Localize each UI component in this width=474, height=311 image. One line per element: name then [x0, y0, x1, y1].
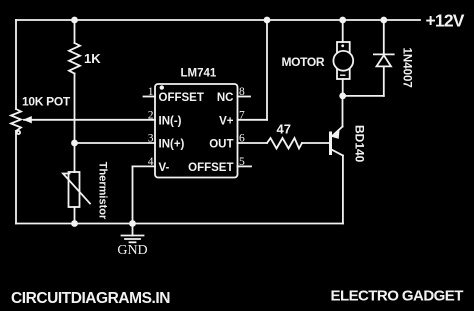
pin number 1: [148, 86, 154, 98]
svg-text:1: 1: [148, 86, 154, 98]
wire top +12V rail: [16, 19, 420, 21]
wire pin3 to IC: [75, 142, 156, 144]
svg-text:GND: GND: [117, 243, 147, 258]
watermark CIRCUITDIAGRAMS.IN: [11, 290, 170, 307]
svg-text:MOTOR: MOTOR: [282, 55, 325, 69]
resistor R1 1K: [69, 43, 80, 74]
svg-text:+12V: +12V: [426, 11, 465, 31]
pin 8 stub: [238, 96, 251, 98]
diode D1 1N4007: [343, 20, 394, 96]
label MOTOR: [282, 55, 325, 69]
label 1K: [84, 51, 101, 66]
watermark ELECTRO GADGET: [331, 288, 464, 305]
svg-text:1K: 1K: [84, 51, 101, 66]
svg-text:Thermistor: Thermistor: [97, 162, 109, 220]
wire thermistor bottom lead: [74, 207, 76, 224]
svg-text:OFFSET: OFFSET: [188, 162, 233, 174]
label Thermistor: [97, 162, 109, 220]
pin label IN(+) (pin3): [159, 139, 185, 151]
pin label OUT (pin6): [209, 139, 233, 151]
pin number 8: [239, 86, 245, 98]
pin label NC (pin8): [217, 92, 234, 104]
svg-text:IN(+): IN(+): [159, 139, 185, 151]
svg-text:6: 6: [239, 133, 245, 145]
pin number 3: [148, 133, 154, 145]
wire motor top lead: [342, 20, 344, 42]
svg-text:8: 8: [239, 86, 245, 98]
label +12V: [426, 11, 465, 31]
svg-text:V-: V-: [159, 162, 170, 174]
svg-text:NC: NC: [217, 92, 234, 104]
resistor R2 47: [267, 138, 302, 149]
wire left vertical (rail to pot top): [15, 20, 17, 109]
svg-text:1N4007: 1N4007: [400, 48, 412, 88]
label LM741: [181, 68, 217, 80]
wire collector down to bottom rail: [342, 156, 344, 224]
op-amp pin1 indicator dot: [160, 85, 164, 89]
junction dot V- on bottom rail: [129, 220, 136, 227]
junction dot top rail / 1K: [71, 17, 78, 24]
svg-text:10K POT: 10K POT: [22, 95, 71, 109]
wire V+ pin7 up to rail: [266, 20, 268, 120]
pin label IN(-) (pin2): [159, 115, 182, 127]
wire 1K bottom lead to pin3 node: [74, 74, 76, 144]
pin 5 stub: [238, 165, 252, 167]
potentiometer 10K POT: [11, 109, 21, 134]
svg-text:7: 7: [239, 109, 245, 121]
pin 1 stub: [144, 96, 156, 98]
pin 6 stub: [238, 142, 268, 144]
label 10K POT: [22, 95, 71, 109]
pin label OFFSET (pin1): [159, 92, 204, 104]
pin number 6: [239, 133, 245, 145]
node motor/diode/emitter junction: [339, 93, 346, 100]
svg-text:3: 3: [148, 133, 154, 145]
pin number 4: [148, 156, 154, 168]
svg-text:4: 4: [148, 156, 154, 168]
label BD140: [352, 125, 366, 163]
wire thermistor top lead: [74, 143, 76, 172]
junction dot V+ on rail: [264, 17, 271, 24]
label 1N4007: [400, 48, 412, 88]
svg-text:V+: V+: [219, 115, 234, 127]
svg-text:BD140: BD140: [352, 125, 366, 163]
junction dot thermistor / bottom rail: [71, 220, 78, 227]
svg-text:OUT: OUT: [209, 139, 233, 151]
wire pot wiper to IC pin2: [24, 119, 155, 121]
svg-text:CIRCUITDIAGRAMS.IN: CIRCUITDIAGRAMS.IN: [11, 290, 170, 307]
wire V- pin4 down to bottom rail: [132, 166, 134, 223]
op-amp U1 LM741 body: [155, 84, 238, 178]
junction dot diode on rail: [380, 17, 387, 24]
svg-text:2: 2: [148, 109, 154, 121]
ground: [122, 224, 144, 243]
svg-text:OFFSET: OFFSET: [159, 92, 204, 104]
wire motor bottom lead: [342, 79, 344, 96]
pin number 2: [148, 109, 154, 121]
label GND: [117, 243, 147, 258]
svg-text:LM741: LM741: [181, 68, 217, 80]
pin 7 stub: [238, 119, 268, 121]
transistor Q1 BD140: [331, 127, 343, 156]
pin label OFFSET (pin5): [188, 162, 233, 174]
junction dot motor on rail: [339, 17, 346, 24]
label 47: [277, 121, 291, 136]
pin number 5: [239, 156, 245, 168]
svg-text:47: 47: [277, 121, 291, 136]
svg-text:ELECTRO GADGET: ELECTRO GADGET: [331, 288, 464, 305]
motor M1: [333, 42, 353, 79]
svg-text:5: 5: [239, 156, 245, 168]
wire bottom rail: [16, 223, 343, 225]
wire emitter up to motor node: [342, 96, 344, 127]
pin number 7: [239, 109, 245, 121]
potentiometer wiper arrow: [23, 116, 32, 123]
pin 4 stub: [133, 165, 156, 167]
pin label V- (pin4): [159, 162, 170, 174]
svg-text:IN(-): IN(-): [159, 115, 182, 127]
wire 1K top lead: [74, 20, 76, 43]
wire 47 to transistor base: [302, 142, 331, 144]
thermistor TH1: [63, 172, 90, 207]
pin label V+ (pin7): [219, 115, 234, 127]
node pin3 junction: [71, 140, 78, 147]
wire left vertical (pot bottom to bottom rail): [15, 131, 17, 224]
